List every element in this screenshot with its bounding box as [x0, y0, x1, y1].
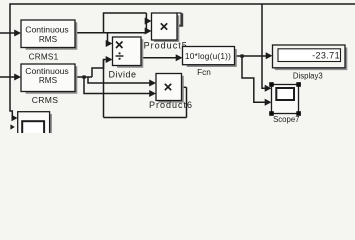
wire input to CRMS1 — [0, 32, 17, 34]
svg-text:Continuous: Continuous — [25, 66, 68, 76]
block Scope7 — [272, 85, 299, 114]
wire CRMS1 output to Product5 inputs — [75, 32, 146, 34]
block bottom-left scope — [18, 112, 50, 136]
divide dots-line symbol — [116, 55, 124, 57]
svg-text:Fcn: Fcn — [197, 68, 211, 77]
arrow into CRMS — [14, 74, 21, 81]
svg-text:Continuous: Continuous — [25, 25, 68, 35]
svg-text:Scope7: Scope7 — [273, 115, 299, 124]
arrow into Divide in1 — [106, 40, 113, 47]
block CRMS — [21, 64, 75, 92]
wire loop bottom horizontal — [104, 117, 187, 119]
block Product6 — [156, 74, 182, 101]
wire top frame horizontal — [10, 3, 355, 5]
svg-text:Divide: Divide — [108, 70, 136, 80]
arrow into Display3 — [266, 52, 273, 59]
wire left frame vertical — [9, 3, 11, 111]
block CRMS1 shadow — [26, 22, 78, 49]
wire input to CRMS — [0, 76, 17, 78]
arrow into Fcn — [176, 54, 183, 61]
display field — [278, 49, 341, 62]
block bottom-left scope shadow — [50, 114, 52, 133]
wire loop right vertical — [186, 87, 188, 117]
svg-text:CRMS: CRMS — [32, 95, 59, 105]
arrow into Scope7 in1 — [265, 85, 272, 92]
block CRMS shadow — [26, 66, 78, 93]
wire long vertical x103.5 down to loop — [103, 60, 105, 118]
junction dot at CRMS output — [82, 75, 85, 78]
wire junction elbow down to Scope7 in2 — [242, 56, 266, 102]
block Fcn — [183, 47, 235, 65]
svg-text:Product5: Product5 — [144, 41, 188, 51]
block Fcn shadow — [187, 49, 237, 67]
block Product5 shadow — [154, 15, 180, 42]
svg-text:RMS: RMS — [39, 76, 58, 85]
wire Product6 output stub — [182, 86, 187, 88]
wire branch down to Product6 in2 — [84, 77, 152, 94]
arrow into CRMS1 — [14, 30, 21, 37]
wire CRMS output — [75, 76, 92, 78]
wire jog into bottom-left scope input 1 — [9, 111, 13, 118]
wire Divide output to Fcn — [141, 57, 177, 59]
wire vertical joining Product5 input arrows — [145, 13, 147, 33]
arrow into bottom-left scope in1 — [12, 115, 18, 121]
arrow into Divide in2 — [106, 56, 113, 63]
svg-text:CRMS1: CRMS1 — [29, 52, 59, 61]
wire Fcn output to Display3 — [235, 55, 267, 57]
block CRMS1 — [21, 20, 75, 48]
wire top feedback down to Scope7 in1 — [262, 4, 266, 88]
block Display3 shadow — [275, 48, 348, 71]
block Product6 shadow — [158, 76, 184, 103]
arrowhead mark bottom-left scope in2 — [10, 124, 14, 129]
arrow into Product6 in1 — [149, 80, 156, 87]
junction dot at Fcn output — [240, 54, 243, 57]
block Display3 — [273, 45, 346, 68]
hidden block tab behind Product5 — [177, 13, 181, 26]
wire branch down to Divide in1 — [107, 33, 110, 44]
block Product5 — [152, 13, 178, 40]
divide x symbol — [116, 42, 123, 49]
arrow into Scope7 in2 — [265, 99, 272, 106]
selection handles — [269, 82, 301, 116]
arrow into Product5 in2 — [145, 28, 152, 35]
svg-text:Product6: Product6 — [149, 100, 193, 110]
block Divide — [113, 37, 142, 66]
block Divide shadow — [117, 39, 143, 68]
scope screen — [276, 88, 294, 100]
product5 x symbol — [161, 23, 167, 29]
arrow into Product5 in1 — [145, 18, 152, 25]
svg-text:10*log(u(1)): 10*log(u(1)) — [185, 51, 231, 61]
wire branch up at x103.5 — [104, 13, 147, 33]
svg-text:Display3: Display3 — [293, 71, 323, 80]
svg-text:-23.71: -23.71 — [312, 50, 340, 60]
arrow into Product6 in2 — [149, 90, 156, 97]
wire branch down to Product6 in1 — [88, 77, 152, 83]
product6 x symbol — [165, 84, 171, 90]
arrowheads — [10, 18, 272, 130]
wire staircase to Divide in2 — [92, 60, 107, 78]
bottom-left scope screen — [22, 121, 44, 135]
svg-text:RMS: RMS — [39, 35, 58, 44]
